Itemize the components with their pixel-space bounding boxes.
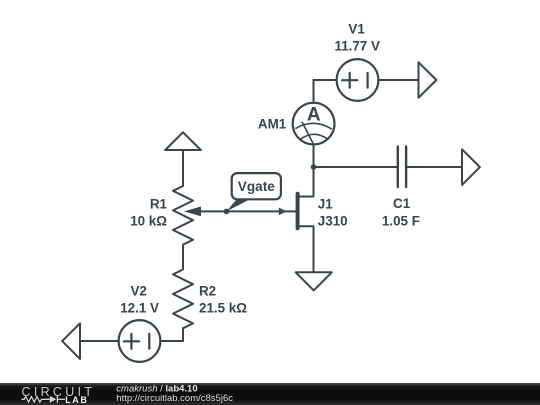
transistor J1 gate bar	[296, 194, 300, 228]
logo resistor-diode glyph	[22, 396, 66, 403]
svg-text:J310: J310	[318, 213, 348, 228]
net flag Vgate pointer	[226, 199, 251, 212]
wire node down to J1 drain	[300, 167, 314, 197]
svg-text:A: A	[307, 105, 321, 126]
wire node to C1 left plate	[314, 166, 398, 168]
svg-text:R1: R1	[150, 196, 168, 211]
node junction dot	[311, 164, 317, 170]
svg-text:C1: C1	[393, 196, 411, 211]
output port flag at C1	[462, 149, 480, 185]
input port flag at V2	[62, 323, 80, 359]
svg-text:12.1 V: 12.1 V	[120, 301, 159, 316]
wire R2 bottom to V2 right lead	[160, 328, 183, 341]
node Vgate dot	[224, 209, 230, 215]
svg-text:21.5 kΩ: 21.5 kΩ	[199, 301, 247, 316]
svg-text:LAB: LAB	[65, 395, 88, 405]
power flag above R1	[165, 132, 201, 150]
wire J1 source to ground	[300, 226, 314, 272]
wire R1 bottom to R2 top	[182, 245, 184, 270]
svg-text:V2: V2	[131, 284, 147, 299]
wire V2 left lead to input flag	[80, 340, 119, 342]
potentiometer R1 zigzag	[173, 181, 193, 245]
svg-text:10 kΩ: 10 kΩ	[130, 213, 167, 228]
wire V1 left lead to elbow	[314, 79, 337, 81]
voltage source V2	[119, 320, 161, 362]
svg-text:11.77 V: 11.77 V	[334, 39, 379, 54]
wire elbow down to AM1 top	[313, 80, 315, 103]
ammeter AM1	[293, 103, 335, 145]
wire V1 right lead to output flag	[378, 79, 418, 81]
svg-text:V1: V1	[348, 21, 365, 36]
capacitor C1 plates	[398, 147, 406, 188]
resistor R2 zigzag	[173, 270, 193, 329]
net flag Vgate box	[232, 173, 281, 199]
output port flag at V1	[419, 62, 437, 98]
svg-text:http://circuitlab.com/c8s5j6c: http://circuitlab.com/c8s5j6c	[116, 393, 233, 404]
voltage source V1	[337, 59, 379, 101]
wire gate: R1 wiper to J1 gate	[196, 210, 296, 212]
wire C1 right plate to output flag	[406, 166, 462, 168]
svg-text:AM1: AM1	[258, 116, 287, 131]
footer bar	[0, 383, 540, 405]
svg-text:R2: R2	[199, 284, 216, 299]
wire AM1 bottom to node	[313, 145, 315, 168]
ground symbol	[296, 272, 332, 290]
wire power flag to R1 top	[182, 150, 184, 181]
svg-text:J1: J1	[318, 196, 333, 211]
transistor J1 gate arrowhead	[279, 208, 287, 216]
potentiometer R1 wiper arrowhead	[184, 207, 201, 217]
svg-text:Vgate: Vgate	[238, 179, 275, 194]
svg-text:1.05 F: 1.05 F	[382, 213, 420, 228]
